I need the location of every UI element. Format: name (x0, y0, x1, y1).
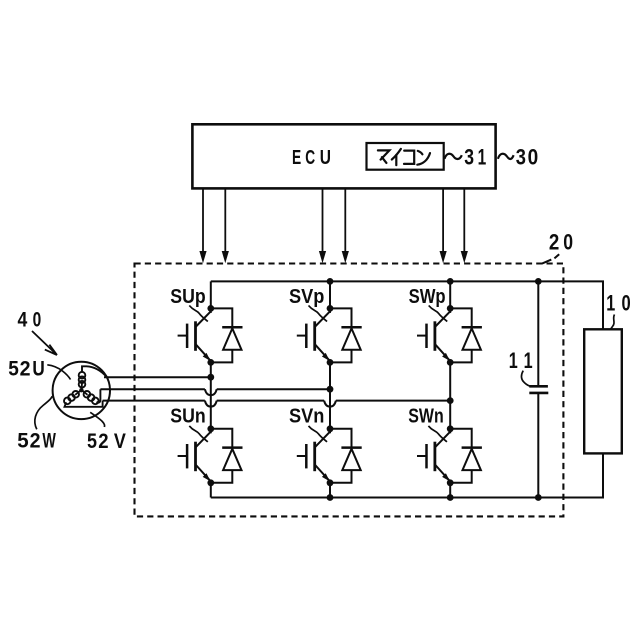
winding V lead wire (97, 389, 101, 402)
svg-text:SVn: SVn (289, 404, 324, 427)
leader 11 (522, 371, 530, 387)
battery 10 (584, 329, 622, 453)
svg-text:3: 3 (516, 144, 526, 169)
svg-text:1: 1 (606, 290, 615, 315)
svg-text:E: E (292, 146, 301, 169)
winding 52V coil (84, 391, 99, 404)
svg-text:0: 0 (563, 229, 573, 254)
svg-text:SWp: SWp (409, 285, 446, 308)
leader 52W (35, 396, 52, 429)
U leg wire middle (210, 362, 212, 428)
W leg wire lower (449, 483, 451, 498)
gate signal arrow 6 (461, 188, 468, 263)
leader SUp (189, 306, 208, 322)
node dot phase U (207, 374, 214, 381)
node dot phase V (327, 386, 334, 393)
winding 52W coil (64, 391, 79, 404)
leader 52U (47, 365, 70, 380)
V leg wire upper (329, 281, 331, 308)
switching element SWp (IGBT + freewheeling diode) (417, 305, 482, 366)
svg-text:2: 2 (549, 229, 559, 254)
node dot capacitor top (535, 278, 542, 285)
leader SVn (309, 426, 328, 442)
phase U wire (104, 376, 211, 378)
V leg wire middle (329, 362, 331, 428)
svg-text:3: 3 (464, 144, 474, 169)
phase W wire with hops at U and V legs (103, 401, 451, 407)
inverter dashed box 20 (135, 264, 564, 517)
svg-text:SUp: SUp (170, 285, 205, 308)
svg-text:4: 4 (18, 308, 28, 332)
leader SUn (189, 426, 208, 442)
U leg wire lower (210, 483, 212, 498)
node dot capacitor bottom (535, 494, 542, 501)
winding 52U coil (79, 372, 86, 388)
capacitor 11 bottom lead (537, 393, 539, 497)
svg-text:1: 1 (524, 348, 533, 373)
leader dashes to label 20 (542, 254, 559, 263)
winding U lead wire (82, 366, 107, 377)
gate signal arrow 2 (222, 188, 229, 263)
node dot V top (327, 278, 334, 285)
svg-text:W: W (42, 429, 56, 452)
svg-text:0: 0 (622, 290, 631, 315)
svg-text:U: U (32, 357, 44, 380)
svg-text:2: 2 (30, 429, 41, 452)
leader SWp (429, 306, 448, 322)
arrow from 40 to motor (32, 331, 57, 355)
gate signal arrow 4 (342, 188, 349, 263)
W leg wire middle (449, 362, 451, 428)
U leg wire upper (210, 281, 212, 308)
svg-text:V: V (114, 430, 126, 453)
svg-text:1: 1 (478, 144, 487, 169)
microcontroller text (katakana maikon) (378, 149, 430, 165)
gate signal arrow 3 (319, 188, 326, 263)
node dot W top (447, 278, 454, 285)
ECU box 30 (192, 124, 495, 188)
node dot V bottom (327, 494, 334, 501)
svg-text:5: 5 (87, 430, 97, 453)
winding W lead wire (65, 401, 103, 407)
svg-text:SVp: SVp (289, 285, 324, 308)
svg-text:SWn: SWn (408, 404, 443, 427)
leader SVp (309, 306, 328, 322)
phase V wire with hop at U leg (100, 389, 330, 395)
capacitor 11 plates (529, 386, 548, 393)
leader 52V (90, 412, 104, 427)
node dot phase W (447, 397, 454, 404)
positive bus wire (211, 281, 603, 329)
svg-text:2: 2 (98, 430, 108, 453)
tilde leader to 30 (498, 154, 514, 159)
svg-text:5: 5 (17, 429, 29, 452)
V leg wire lower (329, 483, 331, 498)
switching element SWn (IGBT + freewheeling diode) (417, 425, 482, 486)
svg-text:C: C (305, 146, 315, 169)
switching element SUn (IGBT + freewheeling diode) (178, 425, 243, 486)
switching element SVp (IGBT + freewheeling diode) (297, 305, 362, 366)
tilde leader to 31 (445, 154, 462, 159)
W leg wire upper (449, 281, 451, 308)
star point junction (75, 384, 87, 395)
svg-text:U: U (320, 146, 331, 169)
motor 40 circle (53, 362, 110, 419)
microcontroller box 31 (367, 143, 444, 170)
node dot W bottom (447, 494, 454, 501)
svg-text:0: 0 (33, 308, 42, 332)
svg-text:5: 5 (8, 357, 19, 380)
gate signal arrow 5 (440, 188, 447, 263)
leader SWn (428, 426, 447, 442)
svg-text:0: 0 (528, 144, 539, 169)
capacitor 11 top lead (537, 281, 539, 386)
negative bus wire (211, 453, 603, 497)
leader 10 (611, 315, 615, 330)
switching element SUp (IGBT + freewheeling diode) (178, 305, 243, 366)
svg-text:1: 1 (509, 348, 518, 373)
svg-text:SUn: SUn (170, 404, 205, 427)
switching element SVn (IGBT + freewheeling diode) (297, 425, 362, 486)
gate signal arrow 1 (199, 188, 206, 263)
svg-text:2: 2 (20, 357, 31, 380)
